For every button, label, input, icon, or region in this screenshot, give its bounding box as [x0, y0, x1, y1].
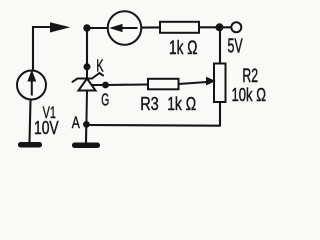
wire v1 bottom — [30, 100, 31, 142]
stem to A — [85, 91, 88, 125]
ground under A — [72, 143, 100, 149]
voltage source V1 circle — [17, 71, 46, 100]
wire V1 top to arrow — [33, 27, 52, 70]
wire current source to R1 — [142, 26, 160, 28]
arrowhead top-left — [50, 22, 70, 32]
node dot G — [102, 82, 109, 89]
resistor R3 — [148, 79, 179, 90]
potentiometer R2 body — [214, 64, 226, 103]
stem K to bar — [86, 67, 88, 79]
wire bottom horizontal A to R2 — [87, 124, 221, 127]
triangle — [79, 79, 96, 91]
node dot A — [83, 121, 90, 128]
wire node to current source — [87, 27, 107, 29]
svg-text:G: G — [101, 91, 109, 111]
V1 internal arrow — [29, 73, 35, 96]
wire R2 bottom — [219, 102, 221, 126]
node dot top middle — [83, 24, 90, 31]
svg-text:5V: 5V — [228, 35, 243, 58]
wiper arrowhead — [206, 77, 216, 86]
current source circle — [108, 11, 142, 45]
current source internal left arrow — [113, 25, 138, 31]
wire A to ground — [85, 124, 87, 142]
svg-text:10k Ω: 10k Ω — [232, 85, 266, 106]
wire R1 to node — [199, 26, 220, 28]
node dot top right — [216, 23, 224, 31]
ground under V1 — [18, 142, 42, 148]
wire R3 to R2 wiper — [179, 82, 208, 84]
thyristor symbol — [73, 67, 106, 125]
terminal 5V — [231, 22, 241, 32]
thyristor K dot — [84, 63, 91, 70]
resistor R1 1k — [160, 22, 199, 33]
bar right hook — [92, 73, 103, 79]
svg-text:R2: R2 — [242, 65, 258, 87]
gate line — [92, 84, 106, 86]
wire node down to R2 — [219, 31, 221, 64]
wire node to 5V terminal — [224, 26, 232, 28]
svg-text:R3: R3 — [140, 93, 159, 114]
svg-text:1k Ω: 1k Ω — [167, 93, 196, 115]
wire G to R3 — [106, 83, 149, 86]
svg-text:A: A — [72, 114, 80, 132]
cathode bar — [78, 78, 93, 80]
wire node down to K — [86, 31, 88, 67]
bar left tick — [73, 79, 78, 82]
svg-text:1k Ω: 1k Ω — [169, 37, 197, 59]
svg-text:10V: 10V — [34, 118, 59, 138]
